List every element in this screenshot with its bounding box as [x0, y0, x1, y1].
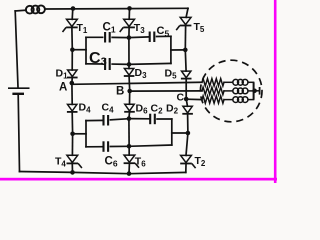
motor neutral terminal bar [259, 87, 261, 95]
thyristor T5 [176, 17, 191, 30]
wire to C5 left plate [129, 36, 149, 39]
motor phase A coil [233, 79, 248, 85]
junction leg1 upper cap tap [70, 47, 75, 52]
wire T3 to C1 node [128, 28, 130, 37]
wire C6 right plate to leg2 [110, 145, 129, 147]
wire leg2 rail to T3 [128, 8, 130, 19]
motor dashed circle [200, 60, 262, 122]
junction leg3 / C2 tap [186, 131, 191, 136]
junction leg2 / C1 / C5 [127, 35, 132, 40]
motor phase A winding resistor [202, 79, 224, 86]
battery V1 [8, 88, 30, 94]
wire T6 to bottom rail [128, 164, 130, 173]
wire top rail left segment [15, 9, 26, 12]
wire to C6 left plate [86, 146, 103, 148]
wire C3 right plate to leg2 [112, 63, 129, 65]
wire node A to D4 [71, 83, 73, 104]
wire left rail lower [18, 95, 19, 172]
wire C2 tap to T2 [186, 133, 188, 155]
svg-text:C: C [177, 92, 185, 104]
wire phase A to coil [224, 81, 233, 83]
wire node C to D2 [186, 99, 187, 106]
junction top rail / leg1 [71, 6, 76, 11]
wire C5 tap to leg3 [171, 49, 185, 51]
wire to C4 left plate [86, 119, 103, 121]
wire tap to C1/C3 branch [72, 49, 86, 51]
wire T1 to tap [71, 28, 73, 49]
wire phase B to motor [130, 90, 202, 92]
capacitor C2 [150, 114, 155, 125]
node A junction [70, 81, 75, 86]
junction bottom rail / leg2 [127, 171, 132, 176]
wire C6 row extension to vertical [129, 145, 172, 146]
wire node B to D6 [129, 91, 131, 104]
thyristor T2 [180, 155, 195, 168]
wire D2 to C2 tap [187, 114, 189, 133]
junction bottom rail / leg1 [70, 170, 75, 175]
diode D2 [182, 106, 193, 114]
capacitor C1 [105, 32, 110, 43]
wire D6 to C4 node [128, 112, 131, 118]
node C junction [184, 97, 189, 102]
wire C4 right plate to leg2 [110, 119, 128, 120]
junction leg3 / C5 tap [183, 48, 188, 53]
wire C4/C6 branch vertical [85, 121, 87, 147]
wire leg2 to D3 [128, 38, 130, 69]
wire phase B coil to star bus [248, 90, 254, 92]
wire top rail main segment [45, 7, 188, 10]
motor phase C winding resistor [202, 96, 224, 103]
wire to C3 left plate [86, 63, 103, 65]
wire leg3 rail corner to T5 [186, 8, 188, 17]
thyristor T4 [67, 155, 82, 168]
wire C1 right plate to leg2 [112, 36, 129, 38]
wire star bus vertical [253, 82, 255, 99]
node B junction [127, 89, 132, 94]
diode D4 [67, 104, 78, 112]
wire phase B to coil [224, 90, 233, 92]
thyristor T1 [63, 19, 78, 32]
junction leg2 / C6 [127, 144, 132, 149]
motor phase B winding resistor [202, 87, 224, 94]
wire to C1 left plate [86, 36, 103, 38]
thyristor T3 [120, 19, 135, 32]
wire T5 to C5 tap [184, 27, 186, 50]
wire C2 right plate to corner [157, 118, 172, 120]
diode D6 [124, 104, 135, 112]
capacitor C5 [150, 32, 155, 43]
svg-text:B: B [116, 86, 124, 98]
junction star point [252, 89, 257, 94]
capacitor C4 [104, 115, 109, 126]
svg-text:A: A [59, 82, 67, 94]
junction leg1 lower cap tap [70, 132, 75, 137]
wire tap to D1 [71, 50, 73, 70]
wire phase C coil to star bus [248, 99, 254, 101]
wire star point lead [255, 90, 260, 92]
junction leg2 / C4 / C2 [127, 116, 132, 121]
wire D1 to node A [71, 78, 73, 83]
inductor L1 [26, 5, 45, 13]
wire C1/C3 branch vertical [85, 37, 87, 64]
motor phase C coil [233, 97, 248, 103]
wire C2 tap to leg3 [172, 132, 188, 134]
wire D4 to tap [71, 113, 73, 134]
wire leg1 rail to T1 [71, 9, 74, 20]
wire bottom rail [20, 172, 186, 174]
wire D5 to node C [185, 79, 187, 99]
wire T2 to bottom rail [185, 165, 187, 173]
wire leg2 to T6 [128, 119, 130, 156]
wire D3 to node B [128, 77, 131, 91]
capacitor C3 [105, 58, 110, 70]
wire phase A to motor [72, 82, 202, 84]
wire phase C to motor [186, 98, 202, 100]
wire C5 right plate to corner [157, 35, 171, 37]
wire T4 to bottom rail [71, 164, 73, 172]
wire tap to T4 [71, 134, 73, 156]
junction top rail / leg2 [127, 6, 132, 11]
capacitor C6 [104, 141, 109, 152]
diode D5 [181, 71, 192, 79]
wire C2 branch vertical [171, 119, 173, 145]
wire C5 tap to D5 [184, 50, 187, 71]
motor phase B coil [233, 88, 248, 94]
wire to C2 left plate [129, 118, 149, 120]
wire left rail upper [15, 11, 18, 87]
thyristor T6 [124, 155, 139, 168]
wire phase A coil to star bus [248, 81, 254, 83]
diode D1 [67, 70, 78, 78]
wire C5 branch vertical [170, 36, 172, 63]
wire phase C to coil [224, 99, 233, 101]
wire tap to C4/C6 branch [73, 133, 86, 135]
diode D3 [124, 69, 135, 77]
wire C3 row extension to vertical [129, 63, 171, 64]
junction leg2 / C3 [127, 62, 132, 67]
